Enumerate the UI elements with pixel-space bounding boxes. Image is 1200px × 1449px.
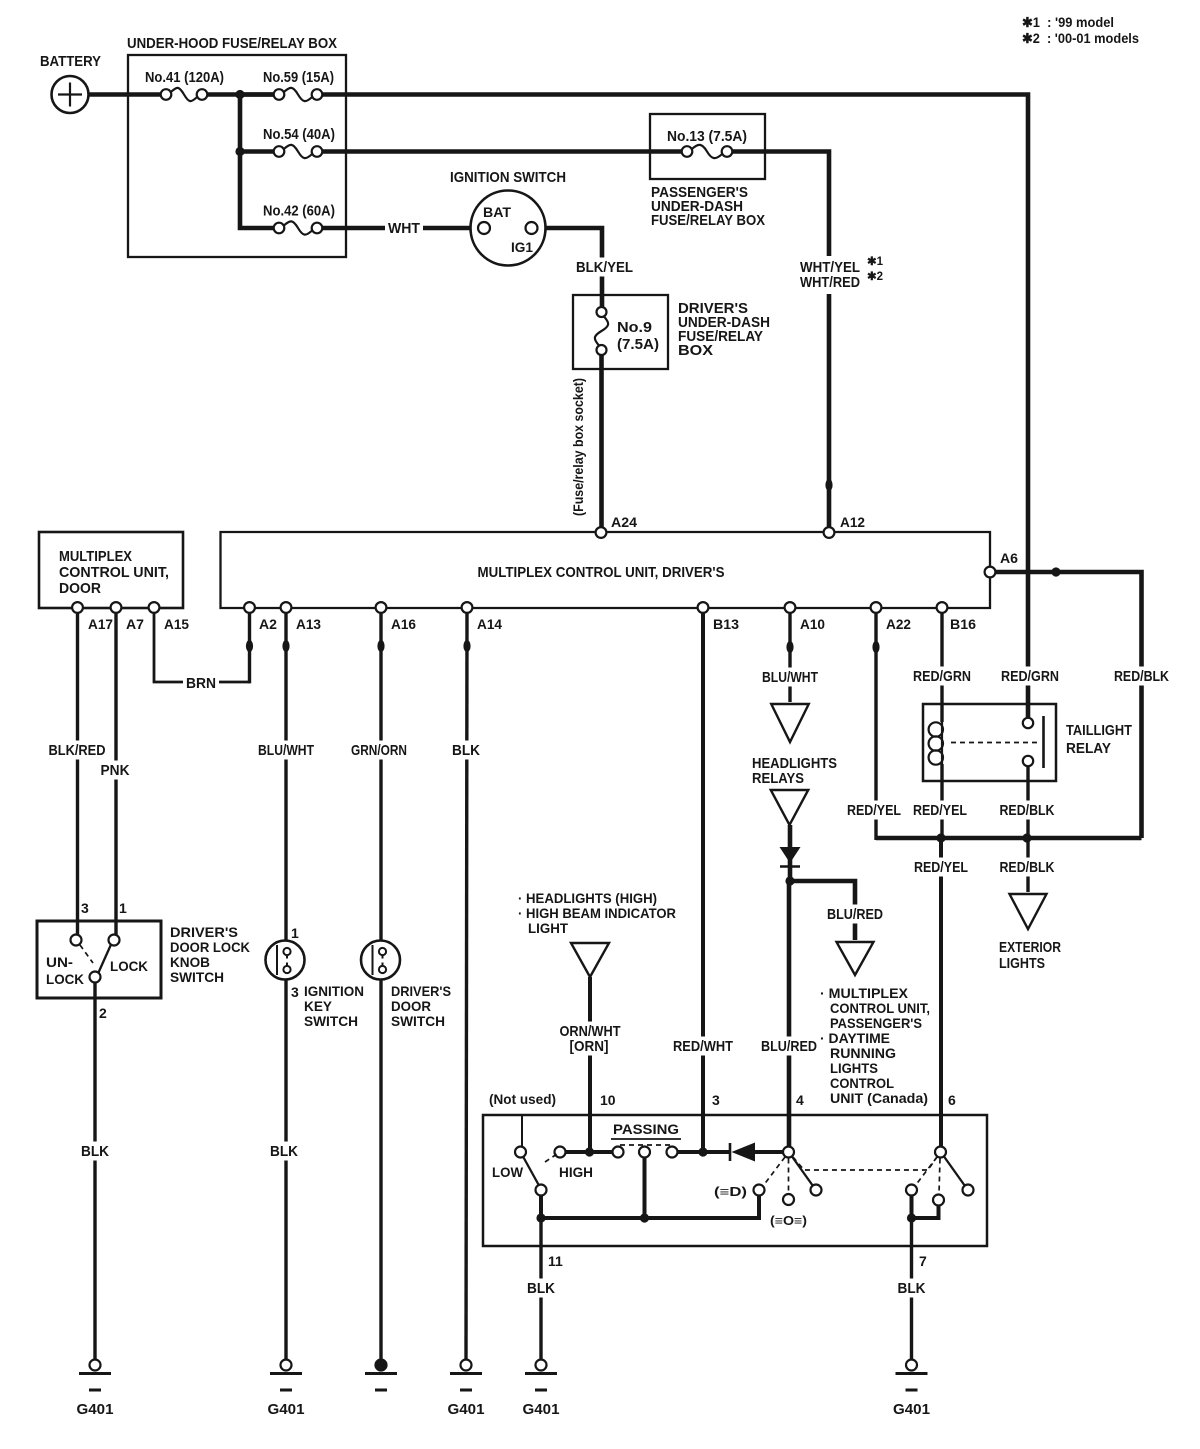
svg-text:TAILLIGHT: TAILLIGHT [1066, 722, 1132, 739]
svg-text:BLK: BLK [81, 1143, 109, 1160]
pin 2 label door lock [99, 1005, 107, 1021]
svg-text:DRIVER'S: DRIVER'S [170, 924, 238, 940]
label WHT/YEL WHT/RED [797, 256, 884, 294]
svg-text:No.9: No.9 [617, 319, 652, 336]
relay contact [951, 716, 1044, 768]
splice on A14 wire [463, 640, 470, 652]
label BLU/RED branch [824, 905, 886, 924]
dimmer low contact [492, 1147, 526, 1181]
fuse No.13 7.5A [667, 128, 747, 158]
label WHT [385, 219, 423, 238]
label RED/BLK exterior [997, 858, 1058, 877]
wire A13 down through ignition key switch to ground [284, 613, 287, 1360]
svg-text:A10: A10 [800, 616, 825, 632]
svg-text:No.59 (15A): No.59 (15A) [263, 69, 334, 86]
label RED/GRN B16 [910, 667, 974, 686]
pin 1 label door lock [119, 900, 127, 916]
wire RED/YEL bus down to dimmer pin6 [939, 838, 943, 1152]
svg-text:A2: A2 [259, 616, 277, 632]
svg-text:KEY: KEY [304, 998, 333, 1014]
terminal A16 [376, 602, 417, 632]
svg-text:PASSING: PASSING [613, 1121, 679, 1137]
svg-text:A24: A24 [611, 514, 637, 530]
diode D2 dimmer [730, 1143, 755, 1162]
svg-text:BLK/YEL: BLK/YEL [576, 259, 633, 276]
svg-text:RED/BLK: RED/BLK [1114, 668, 1169, 685]
wire WHT fuse42 to ignition switch BAT [322, 226, 478, 231]
svg-text:B16: B16 [950, 616, 976, 632]
node junction 2 [235, 147, 244, 156]
ground G401 dimmer pin11 [523, 1360, 560, 1419]
wire low beam bus [541, 1195, 759, 1218]
svg-text:G401: G401 [77, 1401, 114, 1418]
battery [40, 53, 101, 113]
svg-text:No.42 (60A): No.42 (60A) [263, 203, 335, 220]
svg-text:3: 3 [712, 1092, 720, 1108]
label driver door switch [391, 983, 451, 1029]
label RED/BLK A6 [1111, 667, 1172, 686]
svg-text:1: 1 [291, 925, 299, 941]
label ORN/WHT ORN [557, 1022, 624, 1056]
passenger under-dash fuse/relay box [650, 114, 765, 179]
svg-text:SWITCH: SWITCH [304, 1013, 358, 1029]
dimmer pivot 2 contacts [906, 1185, 974, 1206]
label headlights relays [752, 755, 837, 787]
pin 7 label dimmer [919, 1253, 927, 1269]
headlight dimmer/passing switch box [483, 1115, 987, 1246]
terminal A2 [244, 602, 277, 632]
wire relay contact down to bus [1026, 766, 1029, 840]
svg-text:A12: A12 [840, 514, 865, 530]
fuse No.9 7.5A [595, 307, 659, 355]
wire battery to main bus [87, 92, 161, 97]
svg-text:BLK: BLK [270, 1143, 298, 1160]
svg-text:MULTIPLEX: MULTIPLEX [59, 548, 132, 565]
fuse No.42 60A [263, 203, 335, 235]
svg-text:LIGHTS: LIGHTS [999, 955, 1045, 972]
svg-text:A7: A7 [126, 616, 144, 632]
svg-text:DOOR: DOOR [391, 998, 431, 1014]
node diode junction BLU/RED [785, 876, 794, 885]
driver door lock knob switch [37, 921, 161, 998]
node bus RED/BLK [1022, 833, 1031, 842]
label BLU/RED main [758, 1037, 820, 1056]
pin 3 label dimmer [712, 1092, 720, 1108]
svg-text:UNIT (Canada): UNIT (Canada) [830, 1090, 928, 1106]
wire pin11 BLK down to ground [539, 1218, 542, 1360]
under-hood fuse/relay box [127, 35, 346, 257]
label low beam icon [714, 1185, 747, 1199]
wire fuse54 to fuse13 and corner down to A12 [322, 152, 829, 529]
svg-text:✱1: ✱1 [867, 256, 884, 268]
pin 11 label dimmer [548, 1253, 563, 1269]
wire A22 RED/YEL down to bus corner [874, 613, 877, 840]
splice on A13 wire [282, 640, 289, 652]
wire RED/YEL RED/BLK bus [876, 836, 1142, 841]
svg-text:No.54 (40A): No.54 (40A) [263, 126, 335, 143]
svg-text:A15: A15 [164, 616, 189, 632]
terminal A10 [785, 602, 826, 632]
wire dimmer not-used stub [521, 1116, 523, 1147]
svg-text:[ORN]: [ORN] [570, 1038, 609, 1055]
node low bus left [536, 1213, 545, 1222]
wire BLU/RED main down to dimmer pivot [787, 881, 792, 1152]
svg-text:BLK: BLK [527, 1280, 555, 1297]
svg-text:(7.5A): (7.5A) [617, 336, 659, 353]
label RED/WHT [670, 1037, 736, 1056]
svg-text:(Fuse/relay box socket): (Fuse/relay box socket) [571, 378, 586, 516]
ground door switch case [365, 1360, 397, 1391]
svg-text:LOCK: LOCK [110, 959, 148, 974]
wire high contact to passing row [565, 1150, 783, 1154]
label BLU/WHT A10 [759, 668, 821, 687]
pin 6 label dimmer [948, 1092, 956, 1108]
wire headlights relays arrow to diode to junction [788, 825, 793, 884]
svg-text:A6: A6 [1000, 550, 1018, 566]
ignition key switch [266, 941, 305, 980]
svg-text:7: 7 [919, 1253, 927, 1269]
svg-text:A22: A22 [886, 616, 911, 632]
svg-text:· HEADLIGHTS (HIGH): · HEADLIGHTS (HIGH) [518, 890, 657, 906]
label headlights high [518, 890, 676, 936]
svg-text:LIGHT: LIGHT [528, 920, 568, 936]
fuse No.54 40A [263, 126, 335, 158]
label ignition key switch [304, 983, 364, 1029]
label high beam icon [770, 1214, 807, 1228]
svg-text:G401: G401 [448, 1401, 485, 1418]
svg-text:PNK: PNK [101, 762, 130, 779]
label driver door lock knob switch [170, 924, 250, 985]
svg-text:· MULTIPLEX: · MULTIPLEX [820, 985, 909, 1001]
ground G401 A14 [448, 1360, 485, 1419]
splice on A12 wire [825, 479, 832, 491]
wire node2 to fuse54 [240, 149, 274, 154]
node on A6 wire [1051, 567, 1060, 576]
dimmer high contact [555, 1147, 594, 1181]
svg-text:G401: G401 [523, 1401, 560, 1418]
terminal A7 [111, 602, 145, 632]
wire door lock pin2 BLK down to ground [93, 982, 96, 1360]
wire B13 RED/WHT down to dimmer switch [701, 613, 705, 1152]
svg-text:6: 6 [948, 1092, 956, 1108]
terminal A12 [824, 514, 866, 538]
splice on A22 wire [872, 641, 879, 653]
svg-text:KNOB: KNOB [170, 954, 210, 970]
svg-text:No.13 (7.5A): No.13 (7.5A) [667, 128, 747, 145]
splice on A2 wire [246, 640, 253, 652]
svg-text:UN-: UN- [46, 955, 73, 970]
svg-text:BLU/RED: BLU/RED [827, 906, 883, 923]
terminal A13 [281, 602, 322, 632]
arrow headlights relays 1 [771, 704, 809, 742]
wire ignition IG1 to BLK/YEL down to fuse No.9 and A24 [537, 228, 602, 528]
label footnote model years [1022, 15, 1139, 46]
svg-text:LIGHTS: LIGHTS [830, 1060, 878, 1076]
wire pin7 BLK down to ground [910, 1218, 913, 1360]
svg-text:4: 4 [796, 1092, 804, 1108]
svg-text:BRN: BRN [186, 675, 216, 692]
svg-text:✱2 : '00-01 models: ✱2 : '00-01 models [1022, 31, 1139, 46]
label BLK/YEL [573, 258, 636, 277]
terminal A6 [985, 550, 1019, 577]
svg-text:G401: G401 [268, 1401, 305, 1418]
label BLK pin11 [524, 1279, 558, 1298]
svg-text:RELAY: RELAY [1066, 740, 1111, 757]
svg-text:A13: A13 [296, 616, 321, 632]
fuse No.59 15A [263, 69, 334, 101]
wire A6 bus to right corner down to RED/BLK junction bus [995, 572, 1142, 838]
svg-text:RED/YEL: RED/YEL [847, 802, 901, 819]
svg-text:RED/BLK: RED/BLK [1000, 802, 1055, 819]
svg-text:DRIVER'S: DRIVER'S [391, 983, 451, 999]
svg-text:10: 10 [600, 1092, 616, 1108]
label BLK pin7 [895, 1279, 929, 1298]
label exterior lights [999, 939, 1061, 972]
label BLU/WHT A13 [255, 741, 317, 760]
pin 4 label dimmer [796, 1092, 804, 1108]
splice on A16 wire [377, 640, 384, 652]
svg-text:A16: A16 [391, 616, 416, 632]
wire branch to BLU/RED arrow [790, 881, 855, 940]
node passing pin3 junction [698, 1147, 707, 1156]
label multiplex passenger daytime running lights [820, 985, 930, 1106]
svg-text:RUNNING: RUNNING [830, 1045, 896, 1061]
svg-text:BLK/RED: BLK/RED [49, 742, 106, 759]
svg-text:IGNITION: IGNITION [304, 983, 364, 999]
svg-text:DOOR LOCK: DOOR LOCK [170, 939, 250, 955]
svg-text:BLU/WHT: BLU/WHT [258, 742, 314, 759]
fuse No.41 120A [145, 69, 224, 101]
arrow headlights high source [571, 943, 609, 977]
dimmer low/high arm [523, 1154, 557, 1196]
svg-text:RED/YEL: RED/YEL [914, 859, 968, 876]
label BLK door lock [78, 1142, 112, 1161]
pin 3 label ignition key switch [291, 984, 299, 1000]
splice on A10 wire [786, 641, 793, 653]
svg-text:UNDER-HOOD FUSE/RELAY BOX: UNDER-HOOD FUSE/RELAY BOX [127, 35, 337, 52]
svg-text:BLK: BLK [898, 1280, 926, 1297]
svg-text:· DAYTIME: · DAYTIME [820, 1030, 890, 1046]
wire B16 RED/GRN down to relay coil [940, 613, 943, 722]
svg-text:CONTROL: CONTROL [830, 1075, 894, 1091]
label BLK A14 [449, 741, 483, 760]
svg-text:LOW: LOW [492, 1164, 524, 1180]
label RED/GRN main feed [998, 667, 1062, 686]
wire A15 BRN to A2 [154, 613, 250, 683]
wire A16 down through driver door switch to ground [379, 613, 382, 1360]
dimmer mechanical link [793, 1157, 937, 1170]
pin 3 label door lock [81, 900, 89, 916]
wire high beam contact U-link [912, 1195, 939, 1218]
svg-text:IGNITION SWITCH: IGNITION SWITCH [450, 169, 566, 186]
svg-text:G401: G401 [893, 1401, 930, 1418]
svg-text:RED/GRN: RED/GRN [913, 668, 971, 685]
svg-text:· HIGH BEAM INDICATOR: · HIGH BEAM INDICATOR [518, 905, 676, 921]
svg-text:No.41 (120A): No.41 (120A) [145, 69, 224, 86]
label not used [489, 1091, 556, 1107]
wire A17 down to door lock switch pin3 [76, 613, 79, 935]
svg-text:BAT: BAT [483, 204, 511, 220]
terminal B13 [698, 602, 740, 632]
terminal A17 [72, 602, 113, 632]
dimmer pivot 2 [915, 1147, 965, 1195]
diode D1 [780, 847, 801, 867]
svg-text:DOOR: DOOR [59, 580, 101, 597]
multiplex control unit driver box [221, 532, 991, 608]
wire fuse41 to node1 [207, 92, 274, 97]
node high beam junction [907, 1213, 916, 1222]
taillight relay box [923, 704, 1056, 781]
wire A10 BLU/WHT down to headlights relays arrow [788, 613, 791, 702]
wire relay coil to bus [940, 764, 943, 840]
node low bus passing [640, 1213, 649, 1222]
label BRN [183, 674, 219, 693]
svg-text:LOCK: LOCK [46, 972, 84, 987]
svg-text:RED/BLK: RED/BLK [1000, 859, 1055, 876]
svg-text:RED/YEL: RED/YEL [913, 802, 967, 819]
arrow headlights relays 2 [771, 790, 809, 825]
ignition switch [450, 169, 566, 266]
wire node1 down to node2 [238, 95, 243, 152]
node main bus junction 1 [235, 90, 244, 99]
terminal A14 [462, 602, 503, 632]
svg-text:BOX: BOX [678, 342, 713, 359]
dimmer pivot 1 [763, 1147, 813, 1194]
terminal B16 [937, 602, 977, 632]
svg-text:SWITCH: SWITCH [391, 1013, 445, 1029]
relay coil [929, 720, 943, 766]
wire ORN/WHT arrow down to dimmer pin10 [588, 977, 592, 1152]
label PNK [98, 761, 133, 780]
label RED/YEL coil [910, 801, 970, 820]
svg-text:3: 3 [81, 900, 89, 916]
svg-text:BLK: BLK [452, 742, 480, 759]
label passenger box [651, 184, 765, 229]
passing contacts [613, 1145, 678, 1158]
svg-text:RELAYS: RELAYS [752, 770, 804, 787]
pin 10 label [600, 1092, 616, 1108]
label fuse/relay box socket [571, 378, 586, 516]
wire node1 to fuse59 [240, 92, 274, 97]
svg-text:2: 2 [99, 1005, 107, 1021]
wire RED/BLK bus down to exterior lights arrow [1026, 838, 1029, 892]
svg-text:FUSE/RELAY BOX: FUSE/RELAY BOX [651, 212, 765, 229]
label RED/YEL pin6 [911, 858, 971, 877]
driver door switch [361, 941, 400, 980]
svg-text:SWITCH: SWITCH [170, 969, 224, 985]
svg-text:BLU/RED: BLU/RED [761, 1038, 817, 1055]
svg-text:(≡O≡): (≡O≡) [770, 1214, 807, 1228]
arrow BLU/RED to multiplex passenger [837, 942, 874, 975]
label RED/YEL A22 [844, 801, 904, 820]
svg-text:PASSENGER'S: PASSENGER'S [830, 1015, 922, 1031]
svg-text:(Not used): (Not used) [489, 1091, 556, 1107]
ground G401 ignition key switch [268, 1360, 305, 1419]
label taillight relay [1066, 722, 1132, 757]
label BLK/RED [46, 741, 109, 760]
label BLK ignition key [267, 1142, 301, 1161]
svg-text:1: 1 [119, 900, 127, 916]
pin 1 label ignition key switch [291, 925, 299, 941]
dimmer pivot 1 contacts [754, 1185, 822, 1206]
node pin10 high junction [585, 1147, 594, 1156]
wire passing middle contact down to low bus [643, 1157, 647, 1218]
label GRN/ORN [348, 741, 410, 760]
svg-text:MULTIPLEX CONTROL UNIT, DRIVER: MULTIPLEX CONTROL UNIT, DRIVER'S [478, 564, 725, 581]
svg-text:11: 11 [548, 1253, 563, 1269]
terminal A22 [871, 602, 912, 632]
terminal A24 [596, 514, 638, 538]
wire A14 BLK down to ground [466, 613, 467, 1360]
wire main feed fuse59 to right corner and down to taillight relay [322, 95, 1028, 719]
svg-text:EXTERIOR: EXTERIOR [999, 939, 1061, 956]
svg-text:A17: A17 [88, 616, 113, 632]
ground G401 door lock [77, 1360, 114, 1419]
svg-text:A14: A14 [477, 616, 502, 632]
driver under-dash fuse/relay box (No.9) [573, 295, 668, 369]
label passing [611, 1121, 681, 1139]
svg-text:RED/WHT: RED/WHT [673, 1038, 733, 1055]
svg-text:BATTERY: BATTERY [40, 53, 101, 70]
terminal A15 [149, 602, 190, 632]
svg-text:IG1: IG1 [511, 239, 533, 255]
svg-text:B13: B13 [713, 616, 739, 632]
svg-text:HIGH: HIGH [559, 1164, 593, 1180]
svg-text:(≡D): (≡D) [714, 1185, 747, 1199]
svg-text:✱1 : '99 model: ✱1 : '99 model [1022, 15, 1114, 30]
multiplex control unit door box [39, 532, 183, 608]
svg-text:CONTROL UNIT,: CONTROL UNIT, [59, 564, 169, 581]
arrow exterior lights [1010, 894, 1047, 929]
svg-text:3: 3 [291, 984, 299, 1000]
ground G401 dimmer pin7 [893, 1360, 930, 1419]
wire A7 down to door lock switch pin1 [114, 613, 117, 935]
node bus RED/YEL [936, 833, 945, 842]
svg-text:BLU/WHT: BLU/WHT [762, 669, 818, 686]
svg-text:✱2: ✱2 [867, 271, 883, 283]
svg-text:RED/GRN: RED/GRN [1001, 668, 1059, 685]
svg-text:GRN/ORN: GRN/ORN [351, 742, 407, 759]
svg-text:CONTROL UNIT,: CONTROL UNIT, [830, 1000, 930, 1016]
svg-text:WHT: WHT [388, 220, 420, 237]
svg-text:WHT/RED: WHT/RED [800, 274, 860, 291]
label driver box [678, 300, 770, 359]
label RED/BLK contact [997, 801, 1058, 820]
wire node2 down to fuse42 [240, 152, 274, 229]
